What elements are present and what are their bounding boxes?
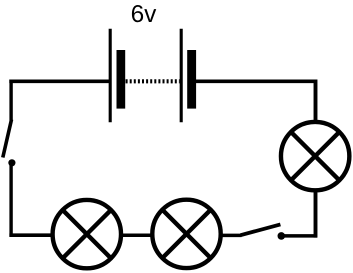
- wire: left vertical from top corner to switch S1: [9, 80, 12, 121]
- wire: lamp L2 to switch S2: [221, 234, 242, 238]
- wire: bottom-left horizontal segment to lamp L1: [9, 233, 53, 237]
- wire: between lamp L1 and lamp L2: [120, 234, 153, 238]
- lamp L1: [53, 200, 121, 268]
- battery B1 cell2 positive plate: [180, 29, 183, 123]
- wire: right vertical from lamp L3 up to top corner: [314, 80, 318, 123]
- switch S2 terminal node (junction dot): [278, 232, 286, 240]
- switch S1 terminal node (junction dot): [8, 159, 15, 166]
- battery B1 dotted internal link: [126, 79, 180, 83]
- wire: right vertical from bottom corner up to lamp L3: [314, 191, 318, 238]
- wire: top-left horizontal segment: [9, 80, 110, 84]
- battery B1 cell1 negative plate: [117, 50, 126, 109]
- battery B1 cell1 positive plate: [109, 29, 112, 123]
- switch S2 blade (open): [241, 224, 281, 235]
- battery B1 cell2 negative plate: [187, 50, 196, 109]
- switch S1 blade (open): [3, 120, 12, 158]
- lamp L2: [152, 200, 220, 268]
- value label 6v: [132, 5, 156, 22]
- wire: top-right horizontal segment: [196, 80, 317, 84]
- wire: left vertical from S1 node to bottom corner: [9, 163, 12, 237]
- wire: switch S2 node to bottom-right corner: [281, 234, 317, 238]
- lamp L3: [281, 122, 349, 190]
